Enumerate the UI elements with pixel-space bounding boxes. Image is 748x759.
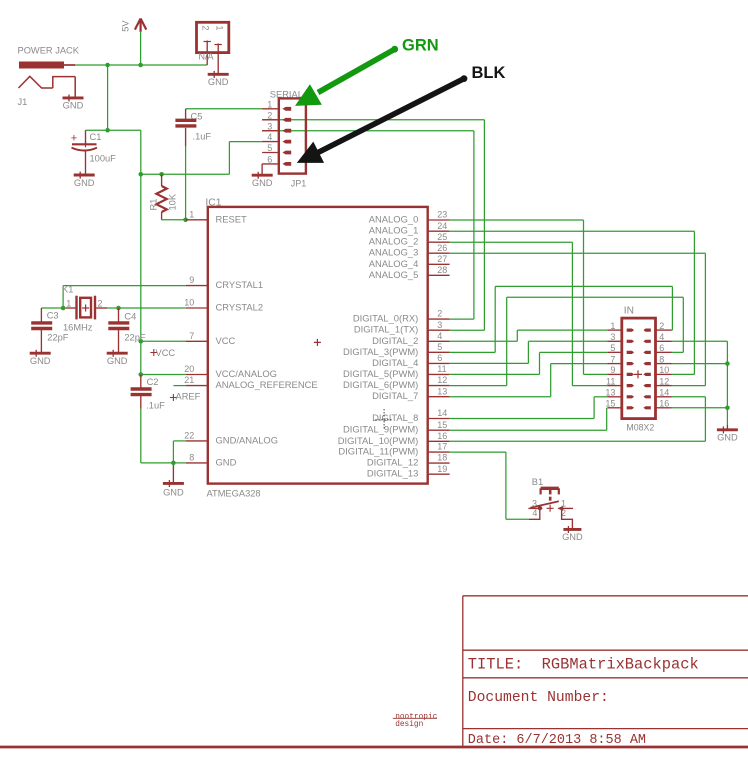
svg-text:JP1: JP1 (291, 179, 307, 189)
svg-text:23: 23 (437, 210, 447, 220)
svg-text:4: 4 (437, 331, 442, 341)
svg-text:GND: GND (107, 356, 128, 366)
svg-text:6: 6 (659, 343, 664, 353)
svg-text:16: 16 (437, 431, 447, 441)
svg-text:12: 12 (437, 375, 447, 385)
svg-text:IC1: IC1 (205, 198, 221, 209)
svg-text:ANALOG_REFERENCE: ANALOG_REFERENCE (216, 379, 318, 390)
svg-text:GND: GND (63, 101, 84, 111)
svg-text:28: 28 (437, 265, 447, 275)
svg-text:C2: C2 (147, 377, 159, 387)
svg-text:1: 1 (189, 209, 194, 219)
svg-text:15: 15 (605, 399, 615, 409)
svg-text:GND: GND (163, 487, 184, 497)
svg-text:ANALOG_0: ANALOG_0 (369, 214, 419, 225)
svg-text:3: 3 (267, 121, 272, 131)
svg-text:.1uF: .1uF (146, 401, 165, 411)
svg-text:VCC: VCC (216, 335, 236, 346)
svg-text:ATMEGA328: ATMEGA328 (207, 488, 261, 498)
svg-text:11: 11 (437, 364, 446, 374)
svg-text:2: 2 (659, 321, 664, 331)
svg-text:26: 26 (437, 243, 447, 253)
svg-text:4: 4 (532, 508, 537, 518)
svg-text:GRN: GRN (402, 37, 439, 55)
svg-text:1: 1 (561, 499, 566, 509)
svg-text:8: 8 (189, 453, 194, 463)
svg-text:VCC/ANALOG: VCC/ANALOG (216, 368, 277, 379)
svg-text:8: 8 (659, 354, 664, 364)
svg-text:BLK: BLK (472, 64, 506, 82)
svg-text:GND: GND (30, 356, 51, 366)
svg-text:22pF: 22pF (124, 333, 146, 343)
svg-text:4: 4 (267, 132, 272, 142)
svg-text:IN: IN (624, 306, 634, 317)
svg-text:+: + (71, 133, 77, 145)
svg-text:DIGITAL_2: DIGITAL_2 (372, 335, 418, 346)
svg-text:24: 24 (437, 221, 447, 231)
svg-text:DIGITAL_5(PWM): DIGITAL_5(PWM) (343, 368, 418, 379)
svg-text:ANALOG_2: ANALOG_2 (369, 236, 419, 247)
svg-text:B1: B1 (532, 477, 543, 487)
svg-text:3: 3 (532, 499, 537, 509)
svg-text:5V: 5V (121, 20, 131, 32)
svg-text:R1: R1 (149, 199, 159, 211)
svg-text:GND: GND (74, 178, 95, 188)
svg-text:10: 10 (184, 298, 194, 308)
svg-text:.1uF: .1uF (193, 132, 212, 142)
svg-text:5: 5 (437, 342, 442, 352)
svg-text:1: 1 (66, 298, 71, 308)
svg-text:GND: GND (208, 77, 229, 87)
svg-text:12: 12 (659, 376, 669, 386)
svg-text:27: 27 (437, 254, 447, 264)
svg-text:21: 21 (184, 375, 194, 385)
svg-text:17: 17 (437, 442, 447, 452)
svg-text:1: 1 (610, 321, 615, 331)
svg-text:GND: GND (717, 433, 738, 443)
svg-text:19: 19 (437, 464, 447, 474)
svg-text:DIGITAL_4: DIGITAL_4 (372, 357, 418, 368)
svg-text:C4: C4 (124, 312, 136, 322)
svg-text:DIGITAL_6(PWM): DIGITAL_6(PWM) (343, 379, 418, 390)
svg-text:5: 5 (267, 143, 272, 153)
svg-text:Document Number:: Document Number: (468, 690, 609, 706)
svg-text:ANALOG_4: ANALOG_4 (369, 258, 419, 269)
svg-text:7: 7 (189, 331, 194, 341)
svg-text:design: design (395, 721, 423, 729)
svg-text:GND: GND (216, 456, 237, 467)
svg-text:9: 9 (189, 275, 194, 285)
svg-text:14: 14 (437, 408, 447, 418)
svg-text:DIGITAL_0(RX): DIGITAL_0(RX) (353, 313, 418, 324)
svg-text:VCC: VCC (156, 348, 176, 358)
svg-text:N/A: N/A (199, 52, 214, 62)
svg-text:K1: K1 (62, 285, 73, 295)
svg-text:DIGITAL_10(PWM): DIGITAL_10(PWM) (338, 435, 419, 446)
svg-text:RESET: RESET (216, 213, 248, 224)
svg-text:13: 13 (605, 388, 615, 398)
svg-text:16MHz: 16MHz (63, 323, 93, 333)
svg-text:6: 6 (437, 353, 442, 363)
svg-text:DIGITAL_8: DIGITAL_8 (372, 412, 418, 423)
svg-text:M08X2: M08X2 (626, 423, 654, 433)
svg-text:15: 15 (437, 420, 447, 430)
svg-text:J1: J1 (18, 97, 28, 107)
svg-text:6: 6 (267, 155, 272, 165)
svg-text:DIGITAL_11(PWM): DIGITAL_11(PWM) (338, 446, 418, 457)
svg-text:TITLE: RGBMatrixBackpack: TITLE: RGBMatrixBackpack (468, 655, 699, 673)
svg-text:3: 3 (610, 332, 615, 342)
svg-text:CRYSTAL1: CRYSTAL1 (216, 279, 264, 290)
svg-text:22: 22 (184, 431, 194, 441)
svg-text:11: 11 (606, 376, 615, 386)
svg-text:ANALOG_3: ANALOG_3 (369, 247, 419, 258)
svg-text:5: 5 (610, 343, 615, 353)
svg-text:DIGITAL_13: DIGITAL_13 (367, 468, 418, 479)
svg-text:POWER JACK: POWER JACK (18, 46, 80, 56)
svg-text:C3: C3 (47, 311, 59, 321)
svg-text:14: 14 (659, 388, 669, 398)
svg-text:18: 18 (437, 453, 447, 463)
svg-text:C1: C1 (90, 132, 102, 142)
svg-text:DIGITAL_1(TX): DIGITAL_1(TX) (354, 324, 418, 335)
svg-text:3: 3 (437, 320, 442, 330)
svg-text:GND/ANALOG: GND/ANALOG (216, 434, 279, 445)
svg-text:ANALOG_5: ANALOG_5 (369, 269, 419, 280)
svg-text:7: 7 (610, 354, 615, 364)
svg-text:DIGITAL_9(PWM): DIGITAL_9(PWM) (343, 424, 418, 435)
svg-text:DIGITAL_12: DIGITAL_12 (367, 457, 418, 468)
svg-text:100uF: 100uF (90, 154, 117, 164)
svg-text:Date: 6/7/2013 8:58 AM: Date: 6/7/2013 8:58 AM (468, 733, 646, 748)
svg-text:DIGITAL_3(PWM): DIGITAL_3(PWM) (343, 346, 418, 357)
svg-text:DIGITAL_7: DIGITAL_7 (372, 390, 418, 401)
svg-text:GND: GND (562, 532, 583, 542)
svg-text:1: 1 (267, 99, 272, 109)
svg-text:GND: GND (252, 178, 273, 188)
svg-text:13: 13 (437, 386, 447, 396)
svg-text:25: 25 (437, 232, 447, 242)
svg-text:2: 2 (267, 110, 272, 120)
svg-text:1: 1 (214, 25, 224, 30)
svg-text:2: 2 (437, 309, 442, 319)
svg-text:16: 16 (659, 399, 669, 409)
svg-text:10: 10 (659, 365, 669, 375)
svg-text:9: 9 (610, 365, 615, 375)
svg-text:10K: 10K (167, 193, 177, 210)
svg-text:CRYSTAL2: CRYSTAL2 (216, 302, 264, 313)
svg-text:22pF: 22pF (47, 333, 69, 343)
svg-text:ANALOG_1: ANALOG_1 (369, 225, 419, 236)
svg-text:2: 2 (200, 25, 210, 30)
svg-text:4: 4 (659, 332, 664, 342)
svg-text:AREF: AREF (176, 392, 201, 402)
svg-text:20: 20 (184, 364, 194, 374)
svg-text:2: 2 (98, 298, 103, 308)
